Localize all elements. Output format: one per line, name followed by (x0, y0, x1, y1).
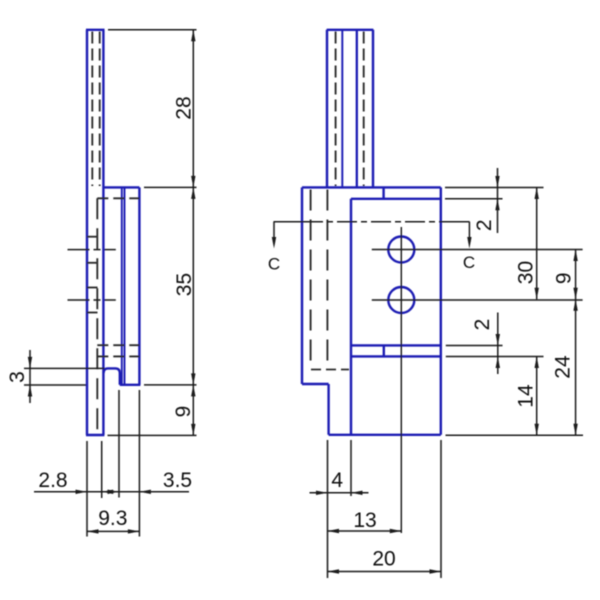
left view: top cap of plate (86, 29, 105, 31)
arrows dim 30 (535, 188, 539, 200)
extension line notch top (3) (24, 367, 105, 369)
right view: body left edge (301, 187, 303, 384)
right view: body right edge (440, 187, 442, 434)
svg-text:9.3: 9.3 (98, 507, 127, 530)
section line C-C right solid part (440, 221, 470, 223)
bottom extension x=327.5 (327, 440, 329, 578)
arrows dim 20 (328, 569, 340, 573)
dimension line 30 (536, 188, 538, 300)
svg-text:9: 9 (552, 272, 575, 284)
holes vertical centerline (400, 227, 402, 533)
right view: top tab hidden line right (363, 32, 365, 187)
right view: leaf edge step connector bottom (383, 345, 385, 356)
svg-text:2: 2 (473, 219, 496, 231)
right view: hidden line plate right (326, 190, 328, 370)
dimension line 4 (310, 492, 369, 494)
hole 2 (388, 287, 414, 313)
dimension line 9.3 (87, 530, 139, 532)
left view: knuckle top edge (103, 186, 139, 188)
svg-text:2: 2 (471, 319, 494, 331)
left view: bottom cap of plate (86, 434, 104, 436)
right view: bottom-left step horizontal (302, 383, 329, 385)
extension lower leaf 2 (446, 356, 544, 358)
dimension line 2 upper (497, 168, 499, 233)
right view: hidden line plate left (310, 190, 312, 370)
left view: leaf plate left edge (86, 30, 88, 435)
svg-text:20: 20 (372, 548, 395, 571)
svg-text:9: 9 (172, 406, 195, 418)
left view: hidden top edge of mating leaf (97, 197, 139, 199)
hole 2 horizontal centerline / extension (372, 299, 583, 301)
arrows dim 9 right view (573, 250, 577, 262)
right view: leaf edge step connector top (382, 187, 384, 198)
right view: top tab left edge (326, 30, 328, 188)
right view: top tab hidden line left (335, 32, 337, 187)
left view: hole 2 centerline (68, 299, 116, 301)
svg-text:2.8: 2.8 (38, 469, 67, 492)
left view: knuckle right edge (138, 187, 140, 384)
left view: knuckle inner double line a (121, 187, 123, 384)
extension line at step (28/35) (144, 186, 197, 188)
svg-text:C: C (268, 255, 280, 274)
arrows dim 2 lower (outside) (496, 334, 500, 346)
dimension line 14 (536, 357, 538, 436)
svg-text:C: C (463, 253, 475, 272)
left view: hidden line in top tab (left) (91, 32, 93, 187)
pin centerline dash-dot (303, 221, 440, 223)
svg-text:14: 14 (515, 384, 538, 408)
right view: bottom-left step vertical (327, 384, 329, 435)
right view: top tab right edge (372, 30, 374, 188)
dimension line 9 and 24 (575, 250, 577, 436)
left view: knuckle bottom edge (120, 384, 141, 386)
section arrowhead right (467, 237, 471, 249)
arrows dim 9.3 (87, 529, 99, 533)
left view dimension texts (6, 96, 196, 530)
dimension line 20 (328, 571, 442, 573)
svg-text:4: 4 (331, 469, 343, 492)
svg-text:30: 30 (515, 261, 538, 284)
arrows dim 4 (outside) (316, 491, 328, 495)
right view: lower leaf line 1 (351, 344, 441, 346)
hole 1 horizontal centerline / extension (372, 249, 583, 251)
arrows dim 9 (left view) (191, 385, 195, 397)
right view: top tab inner line left (341, 30, 343, 188)
section line C-C left solid part (274, 221, 304, 223)
bottom extension x=441 (440, 440, 442, 578)
extension line notch bottom left (3) (24, 384, 86, 386)
left view: hidden lower leaf line 1 (97, 344, 139, 346)
bottom extension x=139.4 (138, 390, 140, 537)
left view: knuckle inner double line b (124, 187, 126, 384)
svg-text:3: 3 (6, 371, 29, 383)
extension body bottom right (446, 434, 584, 436)
right view: top tab top edge (327, 29, 374, 31)
right view: body bottom edge (329, 434, 441, 436)
right view: hidden bottom edge of plate (311, 369, 349, 371)
bottom extension x=351 (350, 440, 352, 496)
left view: pin notch outline (104, 368, 120, 384)
dimension line 28 / 35 / 9 (192, 30, 194, 436)
left view: hidden line in top tab (right) (99, 32, 101, 187)
bottom extension x=87 (86, 441, 88, 537)
left view: hidden hole 2 top edge (87, 287, 98, 289)
right view: top tab inner line right (356, 30, 358, 188)
extension line top (28) (108, 29, 197, 31)
right view: lower leaf line 2 (351, 355, 441, 357)
section arrowhead left (272, 237, 276, 249)
right view: body top edge (302, 186, 441, 188)
section arrow stem right (468, 222, 470, 238)
dimension line 13 (328, 530, 402, 532)
bottom extension x=119 (118, 390, 120, 498)
svg-text:28: 28 (173, 96, 196, 119)
arrows dim 2 upper (outside) (495, 176, 499, 188)
arrows dim 35 (191, 187, 195, 199)
arrows dim 28 (191, 30, 195, 42)
arrows dim 13 (328, 529, 340, 533)
arrows dim 14 (535, 357, 539, 369)
left view: hidden hole 1 top edge (87, 236, 98, 238)
right view dimension texts (331, 219, 575, 570)
arrows dim 24 (573, 299, 577, 311)
svg-text:3.5: 3.5 (163, 469, 192, 492)
hole 1 (388, 237, 414, 263)
svg-text:35: 35 (173, 273, 196, 296)
bottom extension x=101.7 (101, 441, 103, 498)
left view: hidden lower leaf line 2 (97, 355, 139, 357)
left view: hidden line of mating leaf (96, 198, 98, 433)
left view: hole 1 centerline (68, 249, 116, 251)
arrows dim 3 (28, 357, 32, 369)
arrows dim 2.8 (outside) (76, 490, 88, 494)
left view: hidden hole 1 bottom edge (87, 262, 98, 264)
extension line at plate bottom (9) (108, 434, 197, 436)
right view: main block left edge (350, 199, 352, 435)
dimension line 3 (29, 350, 31, 403)
left view: leaf plate right edge (102, 30, 104, 435)
extension lower leaf 1 (446, 345, 503, 347)
section arrow stem left (273, 222, 275, 238)
extension leaf inner top (445, 198, 503, 200)
extension line at knuckle bottom (35/9) (144, 384, 197, 386)
extension body top right (445, 187, 544, 189)
svg-text:24: 24 (552, 355, 575, 379)
arrows dim 3.5 (outside) (108, 490, 120, 494)
svg-text:13: 13 (353, 509, 376, 532)
dimension line 2.8 / 3.5 (34, 491, 189, 493)
left view: hidden hole 2 bottom edge (87, 312, 98, 314)
dimension line 2 lower (497, 313, 499, 375)
right view: leaf top inner edge (351, 198, 441, 200)
